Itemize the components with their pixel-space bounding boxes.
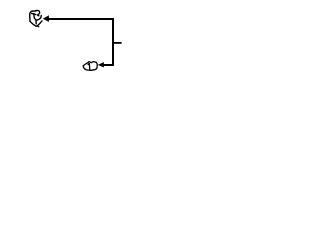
wire: bottom horizontal segment	[104, 64, 115, 66]
wire: right vertical segment	[112, 18, 114, 66]
wire: stub tick on vertical	[113, 42, 122, 44]
icon: open box carton (bottom)	[83, 62, 97, 71]
arrowhead into top icon	[43, 15, 49, 22]
arrowhead into bottom icon	[98, 62, 104, 67]
wire: top horizontal segment	[48, 18, 114, 20]
icon: crushed open box (top)	[30, 10, 42, 26]
